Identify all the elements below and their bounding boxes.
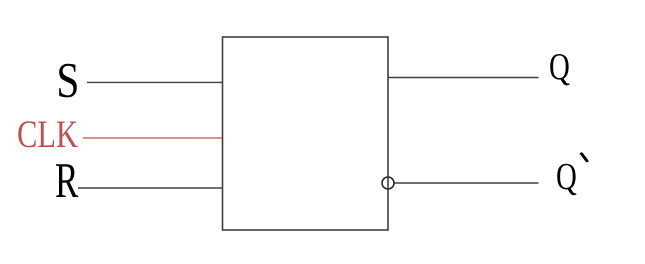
label Q	[550, 54, 569, 85]
wire CLK input	[83, 137, 222, 139]
wire R input	[78, 187, 222, 189]
label Q-bar	[557, 164, 576, 195]
wire Q output	[388, 77, 539, 79]
inversion bubble	[382, 177, 394, 189]
label R	[56, 164, 78, 197]
flip-flop body U1	[223, 37, 389, 230]
label CLK	[18, 121, 77, 147]
prime tick of Q-bar	[580, 152, 589, 162]
wire S input	[87, 81, 222, 83]
wire Q-bar output	[395, 182, 539, 184]
label S	[59, 64, 77, 98]
